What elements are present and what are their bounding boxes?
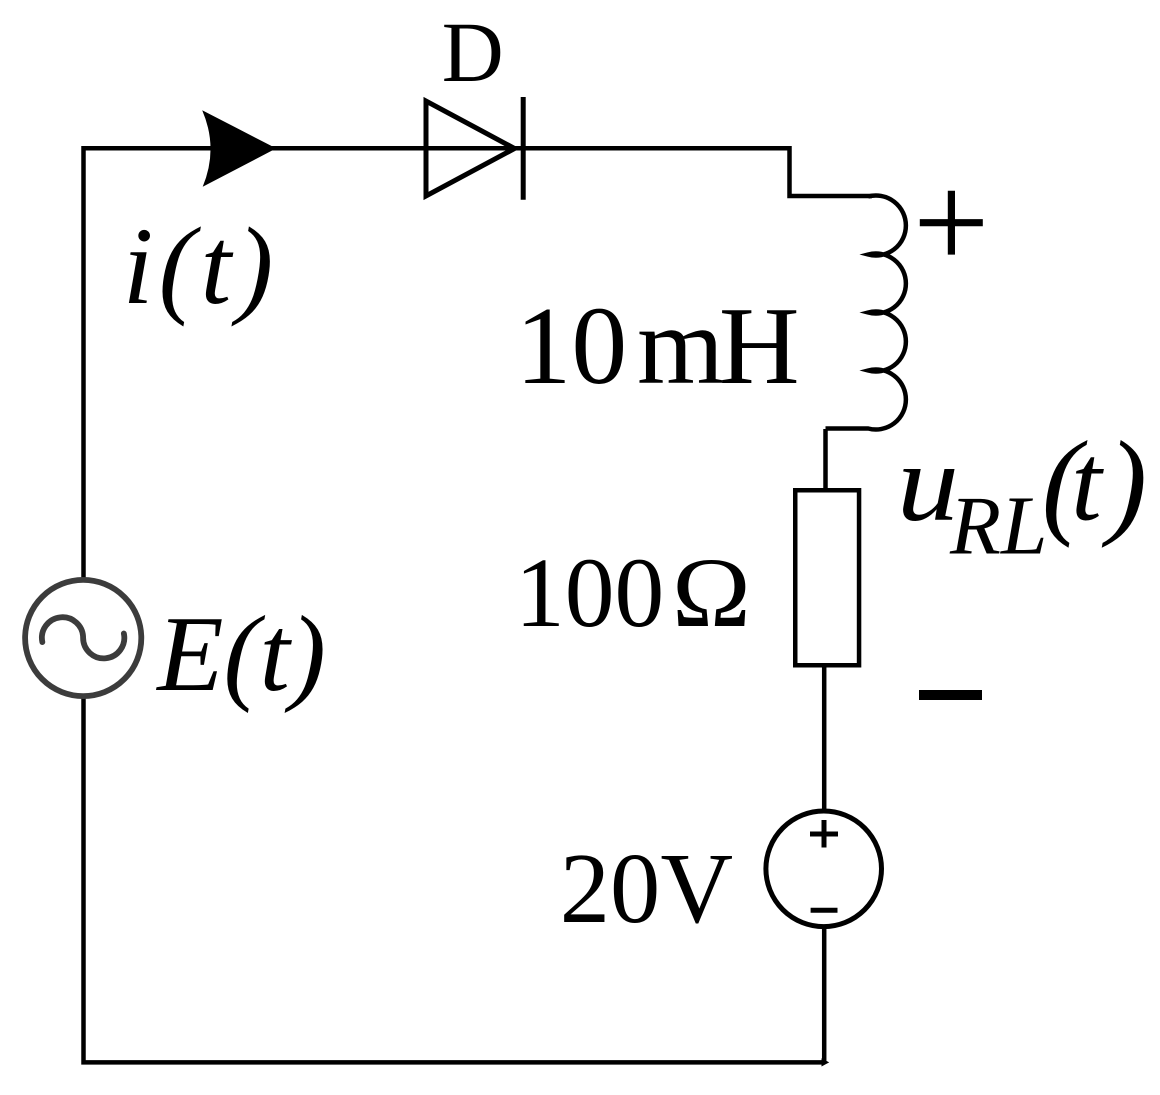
svg-text:i(t): i(t)	[123, 205, 279, 327]
wire between 20V source and resistor	[824, 429, 825, 812]
diode D triangle	[426, 101, 515, 196]
svg-text:10: 10	[516, 284, 628, 408]
wire left lower: AC source bottom to bottom-left corner and bottom wire	[84, 694, 825, 1062]
svg-text:H: H	[719, 284, 800, 408]
DC source minus mark	[811, 908, 838, 913]
svg-text:t: t	[1071, 422, 1104, 544]
plus sign (polarity +)	[920, 191, 983, 255]
junction arrowhead at bottom right	[822, 1058, 830, 1066]
svg-text:20: 20	[560, 832, 661, 944]
svg-text:m: m	[637, 284, 724, 408]
AC source sine wave	[42, 617, 124, 658]
svg-text:): )	[1101, 417, 1147, 549]
svg-text:D: D	[442, 5, 504, 100]
wire top: left corner to diode and on to right corner	[84, 148, 873, 582]
DC source 20V circle	[766, 811, 882, 927]
inductor L coil	[826, 196, 906, 430]
AC source E circle	[25, 580, 141, 696]
svg-text:RL: RL	[949, 481, 1047, 573]
minus sign (polarity -)	[919, 690, 982, 700]
diode D cathode bar	[521, 97, 526, 200]
resistor R box	[795, 490, 859, 665]
svg-text:V: V	[661, 832, 734, 944]
current arrow i(t)	[202, 110, 276, 187]
svg-text:100: 100	[515, 537, 664, 648]
svg-text:Ω: Ω	[672, 538, 751, 648]
svg-text:E(t): E(t)	[155, 594, 326, 714]
DC source plus mark	[810, 820, 838, 848]
wire right lower: bottom corner up to 20V source	[822, 925, 827, 1062]
